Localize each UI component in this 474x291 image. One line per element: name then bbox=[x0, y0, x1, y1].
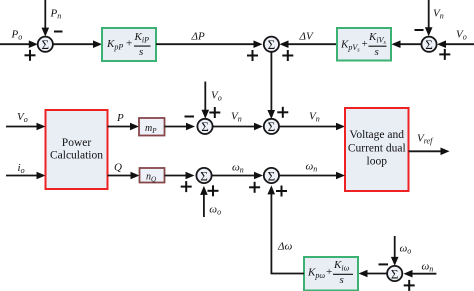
block n_Q droop bbox=[140, 168, 165, 184]
summer S6 bbox=[264, 119, 279, 134]
svg-text:Power: Power bbox=[62, 137, 92, 149]
wire i_o input left bbox=[6, 172, 46, 180]
svg-text:Δω: Δω bbox=[277, 241, 292, 253]
block Voltage and Current dual loop bbox=[345, 108, 409, 191]
svg-text:Σ: Σ bbox=[268, 37, 276, 52]
svg-text:Σ: Σ bbox=[425, 37, 433, 52]
summer S5 plus right bbox=[208, 185, 219, 196]
block Power Calculation bbox=[46, 110, 108, 189]
summer S2 plus right bbox=[282, 50, 293, 61]
summer S3 minus sign bbox=[415, 29, 424, 31]
summer S6 plus sign bbox=[277, 107, 288, 118]
wire S5 to S7 bbox=[212, 172, 263, 180]
wire P output bbox=[108, 123, 140, 131]
summer S5 plus left bbox=[181, 181, 192, 192]
wire dP to S2 bbox=[156, 40, 263, 48]
svg-text:loop: loop bbox=[367, 156, 388, 168]
summer S2 bbox=[264, 37, 279, 52]
summer S8 bbox=[387, 266, 402, 281]
svg-text:Σ: Σ bbox=[200, 168, 208, 183]
summer S7 plus right bbox=[276, 186, 287, 197]
summer S7 bbox=[264, 168, 279, 183]
svg-text:ΔP: ΔP bbox=[191, 31, 205, 43]
wire n_Q to S5 bbox=[165, 172, 195, 180]
block PI power controller KpP+KiP/s bbox=[102, 28, 156, 61]
svg-text:ΔV: ΔV bbox=[299, 31, 314, 43]
wire Q output bbox=[108, 172, 140, 180]
wire S3 to block bbox=[392, 40, 422, 48]
wire S8 to PI freq block bbox=[359, 270, 388, 278]
wire V_o input right bbox=[437, 40, 474, 48]
wire V_o input left bbox=[6, 123, 46, 131]
wire V_n input top right bbox=[425, 0, 433, 36]
summer S5 bbox=[196, 168, 211, 183]
summer S1 minus sign bbox=[54, 31, 63, 33]
wire P_o input bbox=[0, 40, 38, 48]
summer S3 bbox=[421, 37, 436, 52]
svg-text:Σ: Σ bbox=[391, 266, 399, 281]
wire omega_n input bottom right bbox=[404, 270, 437, 278]
wire V_ref output bbox=[409, 148, 450, 156]
svg-text:+: + bbox=[126, 38, 132, 50]
svg-text:+: + bbox=[326, 266, 332, 278]
svg-text:s: s bbox=[139, 46, 143, 58]
wire dV block to S2 bbox=[280, 40, 338, 48]
svg-text:Calculation: Calculation bbox=[50, 150, 103, 162]
summer S1 bbox=[38, 37, 53, 52]
svg-text:Q: Q bbox=[114, 162, 122, 174]
svg-text:Voltage and: Voltage and bbox=[350, 129, 405, 141]
summer S8 plus sign bbox=[404, 280, 415, 291]
summer S3 plus sign bbox=[439, 49, 450, 60]
block m_p droop bbox=[139, 118, 165, 136]
wire m_p to S4 bbox=[165, 123, 196, 131]
wire S6 to voltage loop block bbox=[279, 123, 345, 131]
wire V_o into S4 from top bbox=[202, 82, 210, 119]
svg-text:P: P bbox=[116, 112, 124, 124]
svg-text:s: s bbox=[375, 46, 379, 58]
summer S1 plus sign bbox=[25, 50, 36, 61]
summer S8 minus sign bbox=[379, 263, 389, 265]
svg-text:Σ: Σ bbox=[268, 168, 276, 183]
summer S2 plus left bbox=[247, 50, 258, 61]
wire S2 down to S6 bbox=[267, 52, 275, 119]
summer S4 plus sign bbox=[209, 107, 220, 118]
wire S4 to S6 bbox=[213, 123, 263, 131]
block PI frequency controller KpW+KiW/s bbox=[304, 257, 358, 291]
block PI voltage controller KpVs+KiVs/s bbox=[337, 28, 391, 61]
svg-text:+: + bbox=[362, 38, 368, 50]
wire dW block to corner and up to S7 bbox=[267, 185, 304, 273]
svg-text:s: s bbox=[340, 274, 344, 286]
wire P_n input bbox=[42, 0, 50, 37]
wire S1 to PI block bbox=[53, 40, 102, 48]
svg-text:Σ: Σ bbox=[268, 119, 276, 134]
wire omega_o input above S8 bbox=[391, 236, 399, 266]
svg-text:Σ: Σ bbox=[201, 119, 209, 134]
wire omega_o into S5 from below bbox=[200, 186, 208, 217]
summer S4 bbox=[197, 119, 212, 134]
summer S4 minus sign bbox=[185, 116, 195, 118]
svg-text:Σ: Σ bbox=[42, 37, 50, 52]
summer S7 plus left bbox=[249, 182, 260, 193]
wire S7 to voltage loop block bbox=[279, 172, 345, 180]
svg-text:Current dual: Current dual bbox=[348, 143, 406, 155]
